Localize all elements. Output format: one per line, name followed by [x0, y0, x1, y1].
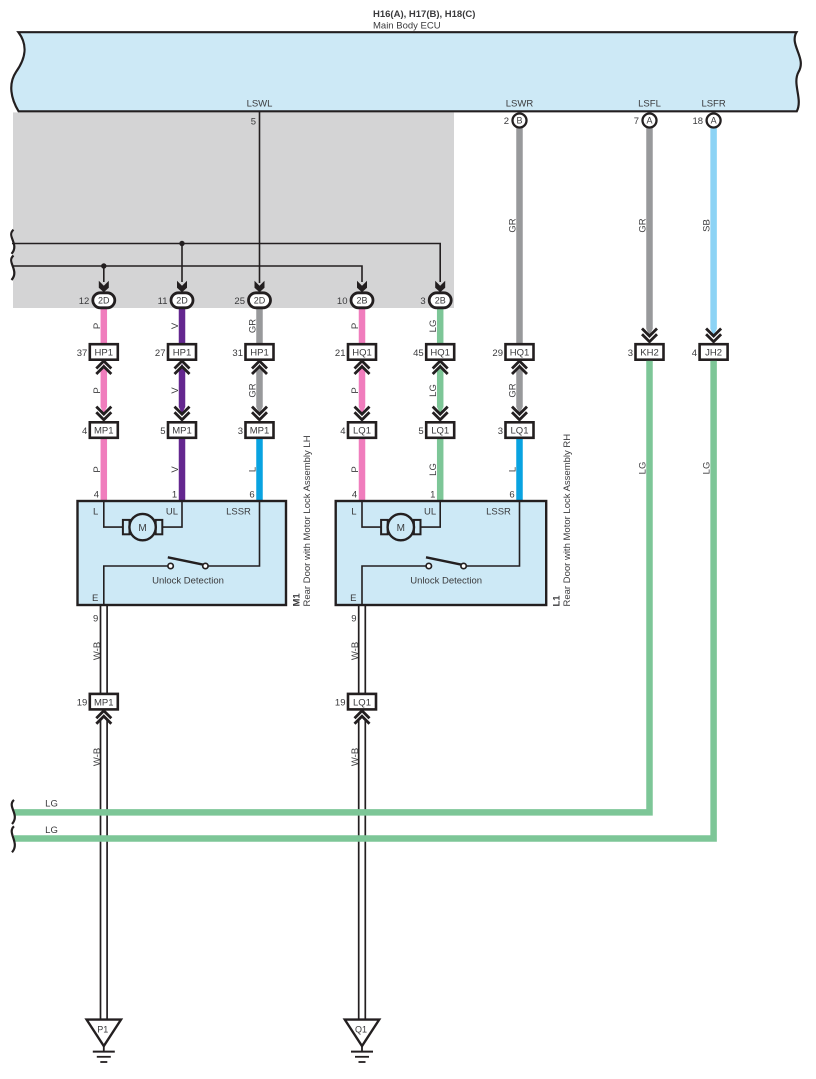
- svg-text:A: A: [711, 116, 717, 126]
- wire segment P between connectors at x=103.8: [101, 364, 108, 414]
- bus wire 2: [12, 266, 362, 282]
- break mark LG line 2: [12, 826, 15, 852]
- pin 18 A of LSFR: [707, 114, 721, 128]
- connector 25 2D: [249, 293, 271, 308]
- svg-text:GR: GR: [508, 383, 519, 397]
- break mark bus 2: [11, 256, 14, 281]
- svg-text:1: 1: [430, 490, 435, 501]
- connector 5 MP1: [175, 407, 190, 415]
- wire GR from LSWR to HQ1: [516, 127, 523, 346]
- svg-text:GR: GR: [508, 218, 519, 232]
- svg-text:LG: LG: [428, 384, 439, 397]
- svg-text:6: 6: [249, 490, 254, 501]
- svg-text:LQ1: LQ1: [353, 697, 371, 708]
- svg-text:V: V: [170, 466, 181, 473]
- svg-text:P1: P1: [97, 1025, 108, 1035]
- svg-text:Q1: Q1: [355, 1025, 367, 1035]
- wire L below LQ1: [516, 436, 523, 502]
- wire SB from LSFR to JH2: [710, 127, 717, 336]
- svg-text:H16(A), H17(B), H18(C): H16(A), H17(B), H18(C): [373, 9, 475, 20]
- svg-text:W-B: W-B: [92, 748, 103, 766]
- svg-text:4: 4: [94, 490, 99, 501]
- ground P1: [87, 1020, 121, 1046]
- svg-text:3: 3: [628, 348, 633, 359]
- svg-text:HP1: HP1: [95, 348, 113, 359]
- ground Q1: [345, 1020, 379, 1046]
- svg-text:MP1: MP1: [94, 697, 114, 708]
- wire segment V between connectors at x=182.0: [179, 364, 186, 414]
- rear door motor lock assembly RH box L1: [336, 501, 547, 605]
- svg-text:KH2: KH2: [640, 348, 658, 359]
- connector 21 HQ1: [348, 344, 376, 360]
- svg-text:P: P: [92, 323, 103, 329]
- unlock detection switch (L1): [426, 557, 462, 564]
- connector 3 LQ1: [512, 407, 527, 415]
- svg-text:LSWL: LSWL: [247, 99, 273, 110]
- svg-text:P: P: [350, 466, 361, 472]
- svg-text:LSFR: LSFR: [701, 99, 725, 110]
- connector 12 2D: [93, 293, 115, 308]
- svg-text:GR: GR: [248, 383, 259, 397]
- svg-text:2B: 2B: [435, 296, 446, 306]
- wire segment P above connector at x=103.8: [101, 308, 108, 346]
- wire GR segment between HQ1 and LQ1: [516, 364, 523, 414]
- svg-text:6: 6: [509, 490, 514, 501]
- svg-text:V: V: [170, 322, 181, 329]
- wire segment GR above connector at x=259.5: [256, 308, 263, 346]
- wire W-B from 19 MP1 to ground: [100, 719, 102, 1019]
- svg-text:3: 3: [238, 426, 243, 437]
- svg-text:P: P: [92, 466, 103, 472]
- svg-text:P: P: [350, 323, 361, 329]
- internal wire switch to E (M1): [104, 566, 171, 605]
- connector 3 KH2: [642, 329, 657, 337]
- svg-text:UL: UL: [424, 507, 436, 518]
- svg-text:3: 3: [420, 296, 425, 307]
- svg-text:GR: GR: [638, 218, 649, 232]
- svg-text:Rear Door with Motor Lock Asse: Rear Door with Motor Lock Assembly RH: [562, 434, 573, 607]
- svg-text:19: 19: [335, 698, 346, 709]
- wire drop bus1 to 11-2D: [181, 244, 183, 283]
- svg-text:2D: 2D: [98, 296, 110, 306]
- svg-text:SB: SB: [702, 219, 713, 232]
- connector 19 MP1: [90, 694, 118, 710]
- svg-text:HP1: HP1: [173, 348, 191, 359]
- svg-text:31: 31: [232, 348, 243, 359]
- connector 19 LQ1: [348, 694, 376, 710]
- svg-text:E: E: [92, 593, 98, 604]
- internal wire UL to motor (L1): [420, 501, 440, 527]
- svg-text:LSSR: LSSR: [226, 507, 251, 518]
- svg-text:L: L: [351, 507, 356, 518]
- svg-text:4: 4: [340, 426, 345, 437]
- wire LG from KH2 to left: [14, 361, 650, 813]
- svg-text:L: L: [93, 507, 98, 518]
- connector 29 HQ1: [506, 344, 534, 360]
- internal wire LSSR to switch (L1): [464, 501, 520, 566]
- svg-text:HP1: HP1: [250, 348, 268, 359]
- internal wire L to motor (M1): [104, 501, 124, 527]
- svg-text:2B: 2B: [356, 296, 367, 306]
- wire segment P below connector at x=103.8: [101, 436, 108, 502]
- svg-text:LSWR: LSWR: [506, 99, 534, 110]
- svg-text:L: L: [508, 467, 519, 472]
- svg-text:LG: LG: [428, 463, 439, 476]
- svg-text:37: 37: [77, 348, 88, 359]
- svg-text:4: 4: [692, 348, 697, 359]
- svg-text:2D: 2D: [254, 296, 266, 306]
- svg-text:L1: L1: [552, 595, 563, 607]
- svg-text:L: L: [248, 467, 259, 472]
- arrow into 10-2B: [357, 281, 367, 293]
- wire segment P below connector at x=362.0: [359, 436, 366, 502]
- break mark bus 1: [11, 230, 14, 254]
- svg-text:HQ1: HQ1: [430, 348, 450, 359]
- svg-text:M: M: [397, 523, 405, 534]
- connector 10 2B: [351, 293, 373, 308]
- svg-text:MP1: MP1: [94, 426, 114, 437]
- connector 45 HQ1: [426, 344, 454, 360]
- bus wire 1: [12, 244, 440, 283]
- connector 31 HP1: [246, 344, 274, 360]
- connector 4 MP1: [96, 407, 111, 415]
- svg-text:GR: GR: [248, 319, 259, 333]
- svg-text:9: 9: [351, 614, 356, 625]
- wire segment V below connector at x=182.0: [179, 436, 186, 502]
- internal wire UL to motor (M1): [162, 501, 182, 527]
- svg-text:LG: LG: [45, 799, 58, 810]
- wire segment P above connector at x=362.0: [359, 308, 366, 346]
- svg-text:29: 29: [492, 348, 503, 359]
- internal wire LSSR to switch (M1): [205, 501, 259, 566]
- connector 3 MP1: [252, 407, 267, 415]
- svg-text:5: 5: [251, 117, 256, 128]
- svg-text:21: 21: [335, 348, 346, 359]
- connector 27 HP1: [168, 344, 196, 360]
- svg-text:MP1: MP1: [250, 426, 270, 437]
- svg-text:4: 4: [352, 490, 357, 501]
- wire segment P between connectors at x=362.0: [359, 364, 366, 414]
- ECU block Main Body ECU: [11, 32, 801, 111]
- svg-text:LSFL: LSFL: [638, 99, 661, 110]
- connector 11 2D: [171, 293, 193, 308]
- svg-text:LG: LG: [45, 825, 58, 836]
- svg-text:JH2: JH2: [705, 348, 722, 359]
- rear door motor lock assembly LH box M1: [78, 501, 287, 605]
- wire W-B from assembly to 19 LQ1: [358, 605, 360, 695]
- svg-text:LG: LG: [702, 462, 713, 475]
- svg-text:E: E: [350, 593, 356, 604]
- svg-text:Rear Door with Motor Lock Asse: Rear Door with Motor Lock Assembly LH: [302, 435, 313, 606]
- wire segment LG below connector at x=440.2: [437, 436, 444, 502]
- wire segment L below connector at x=259.5: [256, 436, 263, 502]
- wire LG from JH2 to left: [14, 361, 714, 839]
- svg-text:10: 10: [337, 296, 348, 307]
- wire GR from LSFL to KH2: [646, 127, 653, 336]
- wire drop bus2 to 12-2D: [103, 266, 105, 282]
- wire W-B from assembly to 19 MP1: [100, 605, 102, 695]
- junction dot on bus 2: [101, 263, 106, 268]
- svg-text:2: 2: [504, 116, 509, 127]
- svg-text:V: V: [170, 387, 181, 394]
- wire segment LG above connector at x=440.2: [437, 308, 444, 346]
- svg-text:5: 5: [418, 426, 423, 437]
- svg-text:LG: LG: [428, 320, 439, 333]
- svg-text:7: 7: [634, 116, 639, 127]
- svg-text:19: 19: [77, 698, 88, 709]
- svg-text:Main Body ECU: Main Body ECU: [373, 21, 441, 32]
- svg-text:Unlock Detection: Unlock Detection: [410, 576, 482, 587]
- svg-text:Unlock Detection: Unlock Detection: [152, 576, 224, 587]
- svg-text:45: 45: [413, 348, 424, 359]
- break mark LG line 1: [12, 800, 15, 824]
- pin 2 B of LSWR: [513, 114, 527, 128]
- svg-text:1: 1: [172, 490, 177, 501]
- connector 4 LQ1: [355, 407, 370, 415]
- wire segment GR between connectors at x=259.5: [256, 364, 263, 414]
- svg-text:M: M: [138, 523, 146, 534]
- wire segment V above connector at x=182.0: [179, 308, 186, 346]
- svg-text:LG: LG: [638, 462, 649, 475]
- svg-text:W-B: W-B: [350, 642, 361, 660]
- svg-text:UL: UL: [166, 507, 178, 518]
- svg-text:W-B: W-B: [92, 642, 103, 660]
- svg-text:5: 5: [160, 426, 165, 437]
- svg-text:2D: 2D: [176, 296, 188, 306]
- internal wire L to motor (L1): [362, 501, 382, 527]
- svg-text:LQ1: LQ1: [353, 426, 371, 437]
- motor M (L1): [381, 520, 388, 534]
- svg-text:HQ1: HQ1: [510, 348, 530, 359]
- svg-text:3: 3: [498, 426, 503, 437]
- svg-text:M1: M1: [292, 593, 303, 607]
- svg-text:HQ1: HQ1: [352, 348, 372, 359]
- junction dot on bus 1: [179, 241, 184, 246]
- internal wire switch to E (L1): [362, 566, 429, 605]
- wire segment LG between connectors at x=440.2: [437, 364, 444, 414]
- connector 5 LQ1: [433, 407, 448, 415]
- svg-text:W-B: W-B: [350, 748, 361, 766]
- svg-text:P: P: [350, 387, 361, 393]
- svg-text:9: 9: [93, 614, 98, 625]
- motor M (M1): [123, 520, 130, 534]
- svg-text:B: B: [516, 116, 522, 126]
- svg-text:25: 25: [234, 296, 245, 307]
- svg-text:A: A: [646, 116, 652, 126]
- svg-text:MP1: MP1: [172, 426, 192, 437]
- svg-text:LQ1: LQ1: [511, 426, 529, 437]
- wire W-B from 19 LQ1 to ground: [358, 719, 360, 1019]
- svg-text:P: P: [92, 387, 103, 393]
- svg-text:LSSR: LSSR: [486, 507, 511, 518]
- connector 3 2B: [429, 293, 451, 308]
- pin 7 A of LSFL: [643, 114, 657, 128]
- harness shaded region: [13, 112, 454, 308]
- svg-text:18: 18: [693, 116, 704, 127]
- arrow into 3-2B: [435, 281, 445, 293]
- svg-text:27: 27: [155, 348, 166, 359]
- connector 37 HP1: [90, 344, 118, 360]
- unlock detection switch (M1): [168, 557, 204, 564]
- svg-text:LQ1: LQ1: [431, 426, 449, 437]
- connector 4 JH2: [706, 329, 721, 337]
- svg-text:4: 4: [82, 426, 87, 437]
- svg-text:12: 12: [79, 296, 90, 307]
- svg-text:11: 11: [158, 296, 168, 307]
